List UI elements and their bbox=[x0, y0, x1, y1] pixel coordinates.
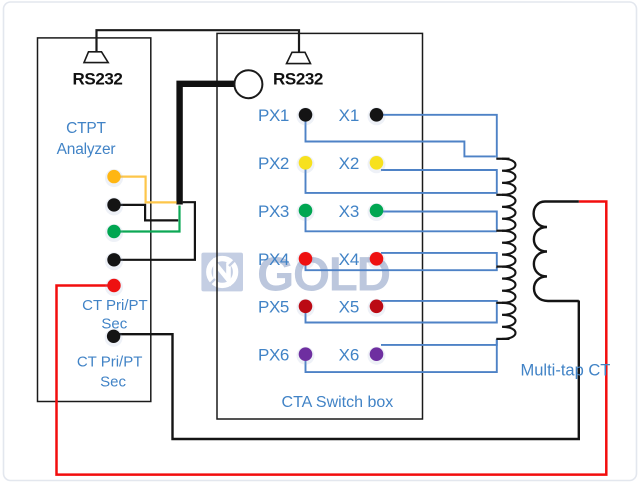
svg-text:PX5: PX5 bbox=[258, 298, 289, 317]
wire: PX1 to tap 1 bbox=[306, 121, 496, 157]
svg-text:CT Pri/PT: CT Pri/PT bbox=[77, 353, 143, 370]
RS232 port circle U1 bbox=[234, 70, 262, 98]
wire: black from terminal 4 to cable tip bbox=[120, 202, 195, 260]
wire: PX4 to tap 4 bbox=[306, 265, 497, 270]
tap X2 stub bbox=[496, 194, 509, 196]
terminal X3 bbox=[368, 203, 386, 221]
watermark logo bbox=[201, 248, 389, 301]
terminal: red CT Pri bbox=[105, 278, 123, 296]
svg-text:CTPT: CTPT bbox=[66, 120, 106, 137]
svg-text:PX6: PX6 bbox=[258, 346, 289, 365]
terminal PX3 bbox=[297, 203, 315, 221]
svg-text:Analyzer: Analyzer bbox=[57, 141, 116, 158]
terminal PX1 bbox=[297, 107, 315, 125]
svg-text:X1: X1 bbox=[339, 106, 360, 125]
svg-text:PX3: PX3 bbox=[258, 202, 289, 221]
wire: X4 to tap 4 bbox=[381, 253, 497, 266]
terminal: black 1 bbox=[105, 197, 123, 215]
wire: X3 to tap 3 bbox=[382, 212, 497, 230]
svg-text:Multi-tap CT: Multi-tap CT bbox=[521, 362, 611, 380]
terminal: green bbox=[105, 224, 123, 242]
terminal PX4 bbox=[297, 251, 315, 269]
svg-text:X2: X2 bbox=[339, 154, 360, 173]
svg-text:X4: X4 bbox=[339, 250, 360, 269]
wire: X1 to tap 1 bbox=[382, 115, 497, 158]
wire: X6 to tap 6 bbox=[381, 339, 497, 345]
tap X4 stub bbox=[496, 266, 509, 268]
terminal X6 bbox=[368, 347, 386, 365]
wire: RS232 serial link cable bbox=[97, 30, 300, 52]
tap X6 stub bbox=[496, 338, 509, 340]
terminal X4 bbox=[368, 251, 386, 269]
CTA Switch box outline bbox=[217, 33, 423, 419]
wire: X2 to tap 2 bbox=[381, 170, 497, 194]
terminal: orange bbox=[105, 169, 123, 187]
RS232 connector (CTA Switch box) bbox=[287, 52, 311, 63]
terminal PX6 bbox=[297, 347, 315, 365]
tap X1 stub bbox=[496, 158, 509, 160]
svg-text:X3: X3 bbox=[339, 202, 360, 221]
wire: black from CT Sec terminal to primary winding bbox=[119, 301, 579, 440]
wire: red loop from CT Pri terminal bbox=[57, 202, 607, 475]
svg-text:Sec: Sec bbox=[100, 373, 126, 390]
wire: yellow from orange terminal bbox=[118, 177, 177, 203]
terminal X1 bbox=[368, 107, 386, 125]
svg-text:CTA Switch box: CTA Switch box bbox=[282, 394, 394, 411]
wire: X5 to tap 5 bbox=[381, 301, 497, 303]
tap X5 stub bbox=[496, 302, 509, 304]
svg-text:PX4: PX4 bbox=[258, 250, 289, 269]
svg-text:PX2: PX2 bbox=[258, 154, 289, 173]
terminal PX2 bbox=[297, 155, 315, 173]
terminal PX5 bbox=[297, 299, 315, 317]
terminal X5 bbox=[368, 299, 386, 317]
svg-text:X5: X5 bbox=[339, 298, 360, 317]
wire: thick RS232 cable bbox=[180, 84, 241, 205]
tap X3 stub bbox=[496, 230, 509, 232]
CTPT Analyzer box bbox=[38, 38, 151, 402]
terminal X2 bbox=[368, 155, 386, 173]
multi-tap CT secondary winding loops bbox=[502, 159, 516, 339]
multi-tap CT primary winding bbox=[534, 202, 579, 302]
RS232 connector (CTPT Analyzer) bbox=[84, 52, 108, 63]
wire: black from terminal 2 bbox=[118, 205, 178, 221]
wire: PX2 to tap 2 bbox=[306, 169, 497, 193]
svg-text:Sec: Sec bbox=[101, 316, 127, 333]
wire: green from terminal 3 bbox=[118, 206, 180, 232]
terminal: black CT Sec bbox=[105, 329, 123, 347]
svg-text:RS232: RS232 bbox=[273, 69, 323, 88]
svg-text:RS232: RS232 bbox=[73, 69, 123, 88]
wire: PX5 to tap 5 bbox=[306, 303, 497, 323]
svg-text:PX1: PX1 bbox=[258, 106, 289, 125]
svg-text:X6: X6 bbox=[339, 346, 360, 365]
svg-text:CT Pri/PT: CT Pri/PT bbox=[82, 297, 148, 314]
wire: PX3 to tap 3 bbox=[306, 217, 497, 232]
terminal: black 2 bbox=[105, 252, 123, 270]
wire: PX6 to tap 6 bbox=[306, 339, 497, 372]
